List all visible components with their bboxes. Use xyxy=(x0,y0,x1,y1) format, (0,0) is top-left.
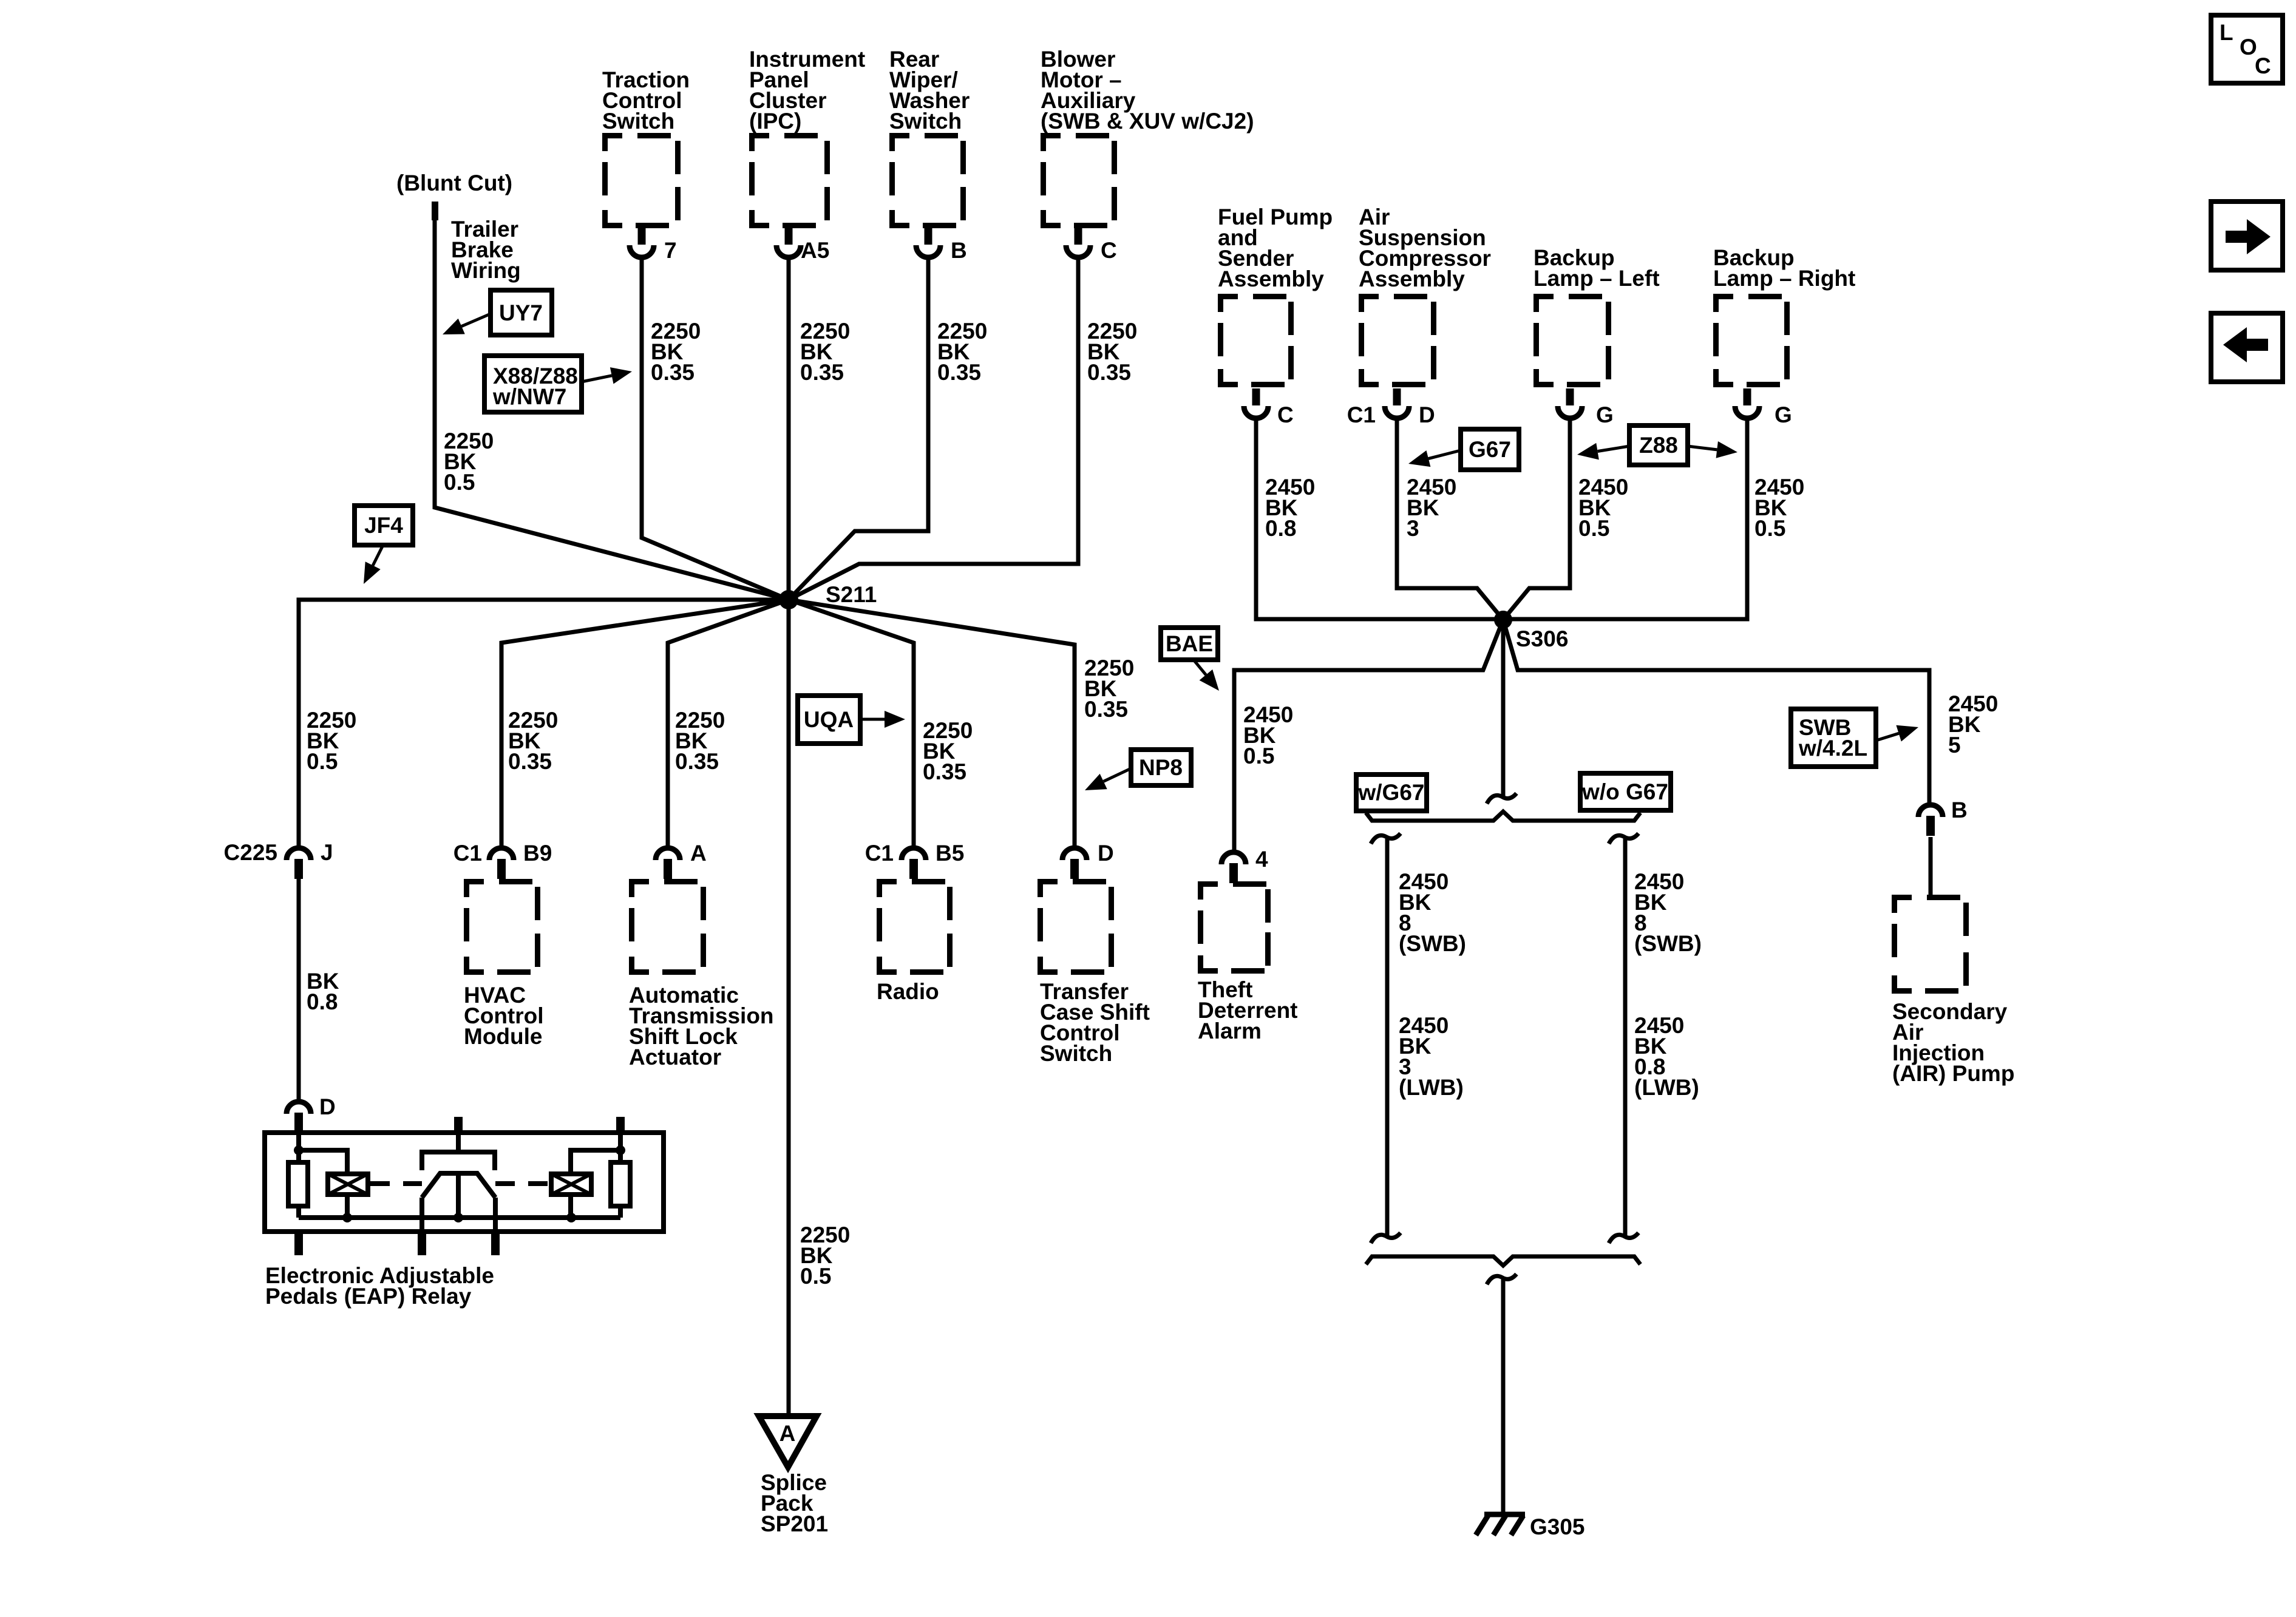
svg-text:BackupLamp – Left: BackupLamp – Left xyxy=(1533,245,1660,291)
relay top pin stubs xyxy=(454,1117,463,1133)
Traction Control Switch box xyxy=(602,133,681,228)
option box w/o G67 xyxy=(1580,773,1671,810)
upper options brace xyxy=(1366,812,1640,821)
svg-text:TransferCase ShiftControlSwitc: TransferCase ShiftControlSwitch xyxy=(1040,979,1150,1066)
splice S306 xyxy=(1494,611,1512,629)
svg-text:C: C xyxy=(2255,53,2271,78)
wire S211 to Automatic Transmission Shift Lock Actuator xyxy=(668,600,789,848)
wire break below lower brace xyxy=(1487,1274,1517,1284)
connector pin 7 (Traction Control Switch) xyxy=(630,228,654,257)
svg-text:2450BK0.5: 2450BK0.5 xyxy=(1578,475,1628,541)
Backup Lamp Right box xyxy=(1713,294,1790,387)
connector C1 B9 (HVAC Control Module) xyxy=(489,848,514,879)
svg-text:S306: S306 xyxy=(1516,626,1568,651)
svg-text:2450BK0.8(LWB): 2450BK0.8(LWB) xyxy=(1634,1013,1699,1100)
svg-text:2250BK0.5: 2250BK0.5 xyxy=(444,429,494,495)
wire brace to ground G305 xyxy=(1501,1280,1506,1514)
svg-text:2450BK8(SWB): 2450BK8(SWB) xyxy=(1634,869,1702,956)
wire C225 to EAP relay connector D xyxy=(297,879,301,1102)
wire S211 to Radio xyxy=(789,600,914,848)
svg-text:TheftDeterrentAlarm: TheftDeterrentAlarm xyxy=(1198,977,1298,1043)
svg-text:2250BK0.35: 2250BK0.35 xyxy=(923,718,973,784)
wire S211 to Transfer Case Shift Control Switch xyxy=(789,600,1075,848)
option box G67 xyxy=(1461,429,1519,470)
option box UQA xyxy=(798,696,860,744)
resistor left xyxy=(288,1162,308,1206)
wire B connector to AIR pump box xyxy=(1929,837,1933,895)
arrow Z88 to backup lamp right wire xyxy=(1688,446,1717,450)
svg-text:(Blunt Cut): (Blunt Cut) xyxy=(396,171,512,195)
svg-text:AutomaticTransmissionShift Loc: AutomaticTransmissionShift LockActuator xyxy=(629,983,774,1070)
arrow SWB to AIR pump wire xyxy=(1876,733,1899,741)
svg-text:Electronic AdjustablePedals (E: Electronic AdjustablePedals (EAP) Relay xyxy=(265,1263,494,1309)
wire Air Suspension Compressor to S306 xyxy=(1397,418,1503,620)
svg-text:D: D xyxy=(1098,841,1114,866)
arrow UY7 to trailer brake wire xyxy=(461,314,491,327)
svg-text:AirSuspensionCompressorAssembl: AirSuspensionCompressorAssembly xyxy=(1359,205,1491,291)
Backup Lamp Left box xyxy=(1533,294,1611,387)
svg-text:TrailerBrakeWiring: TrailerBrakeWiring xyxy=(451,217,521,283)
connector pin D (EAP relay) xyxy=(287,1102,311,1133)
svg-text:NP8: NP8 xyxy=(1139,755,1183,780)
svg-text:BK0.8: BK0.8 xyxy=(307,969,339,1014)
svg-text:L: L xyxy=(2220,20,2233,45)
Radio box xyxy=(877,879,953,975)
svg-text:SplicePackSP201: SplicePackSP201 xyxy=(761,1470,828,1536)
svg-text:4: 4 xyxy=(1255,847,1268,872)
wire Traction Control Switch to S211 xyxy=(642,257,789,600)
svg-text:C225: C225 xyxy=(224,840,277,865)
wire break top of w/o G67 branch xyxy=(1609,833,1639,844)
Theft Deterrent Alarm box xyxy=(1198,881,1271,974)
connector pin B (Rear Wiper/Washer Switch) xyxy=(916,228,940,257)
wire Fuel Pump to S306 xyxy=(1256,418,1503,619)
svg-text:2250BK0.35: 2250BK0.35 xyxy=(508,708,558,774)
option box NP8 xyxy=(1131,750,1191,785)
Secondary Air Injection (AIR) Pump box xyxy=(1892,895,1969,994)
svg-text:2450BK3: 2450BK3 xyxy=(1407,475,1456,541)
wire IPC through S211 down to Splice Pack SP201 xyxy=(787,257,791,1417)
ground G305 xyxy=(1484,1512,1525,1517)
Transfer Case Shift Control Switch box xyxy=(1038,879,1114,975)
svg-text:C1: C1 xyxy=(453,841,482,866)
svg-text:2450BK8(SWB): 2450BK8(SWB) xyxy=(1399,869,1466,956)
svg-text:7: 7 xyxy=(664,238,677,263)
svg-text:2250BK0.35: 2250BK0.35 xyxy=(1084,656,1134,722)
wire Rear Wiper/Washer Switch to S211 xyxy=(789,257,928,600)
svg-text:D: D xyxy=(319,1094,336,1119)
svg-text:A: A xyxy=(779,1421,796,1446)
arrow G67 to air suspension wire xyxy=(1428,450,1461,459)
Air Suspension Compressor Assembly box xyxy=(1359,294,1436,387)
relay left branch wiring xyxy=(296,1133,301,1218)
arrow Z88 to backup lamp left wire xyxy=(1598,446,1629,452)
svg-text:BackupLamp – Right: BackupLamp – Right xyxy=(1713,245,1855,291)
svg-text:B: B xyxy=(1951,798,1968,822)
wire Blower Motor to S211 xyxy=(789,257,1078,600)
svg-text:2450BK5: 2450BK5 xyxy=(1948,691,1998,758)
lower options brace xyxy=(1366,1256,1640,1266)
option box w/G67 xyxy=(1356,775,1427,811)
svg-text:2250BK0.35: 2250BK0.35 xyxy=(651,319,701,385)
Blower Motor Auxiliary box xyxy=(1041,133,1117,228)
EAP relay box xyxy=(265,1133,664,1232)
Rear Wiper/Washer Switch box xyxy=(889,133,966,228)
svg-text:SWBw/4.2L: SWBw/4.2L xyxy=(1798,715,1867,761)
svg-text:Z88: Z88 xyxy=(1639,433,1678,458)
svg-text:JF4: JF4 xyxy=(364,513,403,538)
svg-text:C: C xyxy=(1277,402,1294,427)
option box BAE xyxy=(1161,628,1218,660)
splice pack SP201 triangle xyxy=(759,1416,817,1467)
svg-text:C1: C1 xyxy=(1347,402,1376,427)
svg-text:BlowerMotor –Auxiliary(SWB & X: BlowerMotor –Auxiliary(SWB & XUV w/CJ2) xyxy=(1041,47,1254,134)
svg-text:C1: C1 xyxy=(865,841,894,866)
coil right (X box) xyxy=(551,1174,591,1195)
svg-text:D: D xyxy=(1419,402,1435,427)
svg-text:B9: B9 xyxy=(523,841,552,866)
svg-text:HVACControlModule: HVACControlModule xyxy=(464,983,544,1049)
svg-text:2250BK0.35: 2250BK0.35 xyxy=(675,708,725,774)
option box Z88 xyxy=(1629,425,1688,465)
connector pin G (Backup Lamp Right) xyxy=(1735,388,1759,418)
wire Backup Lamp Left to S306 xyxy=(1503,418,1570,620)
wire S211 to HVAC Control Module xyxy=(501,600,789,848)
wire Backup Lamp Right to S306 xyxy=(1503,418,1747,619)
svg-text:B: B xyxy=(951,238,967,263)
svg-text:G67: G67 xyxy=(1469,437,1511,462)
relay right branch wiring xyxy=(618,1133,623,1218)
Instrument Panel Cluster box xyxy=(749,133,830,228)
wire break bottom of w/G67 branch xyxy=(1371,1233,1401,1243)
connector pin D (Transfer Case Shift Control Switch) xyxy=(1062,848,1087,879)
svg-text:S211: S211 xyxy=(826,582,877,607)
svg-text:A: A xyxy=(690,841,707,866)
arrow BAE to theft alarm wire xyxy=(1194,660,1206,675)
wire S306 to Secondary Air Injection pump (SWB branch) xyxy=(1503,620,1929,805)
connector pin C (Fuel Pump) xyxy=(1244,388,1268,418)
svg-text:2250BK0.35: 2250BK0.35 xyxy=(937,319,987,385)
connector pin B (Secondary Air Injection Pump) xyxy=(1918,805,1943,836)
svg-text:2450BK0.5: 2450BK0.5 xyxy=(1243,702,1293,768)
svg-text:X88/Z88w/NW7: X88/Z88w/NW7 xyxy=(492,364,578,409)
wire break at S306 lower wire end xyxy=(1487,793,1517,804)
arrow UQA to radio wire xyxy=(860,718,885,721)
relay dashed link xyxy=(370,1181,551,1186)
relay bottom bus xyxy=(299,1215,620,1220)
back arrow box xyxy=(2211,313,2283,382)
svg-text:Radio: Radio xyxy=(877,979,939,1004)
connector pin C (Blower Motor) xyxy=(1066,228,1090,257)
svg-text:2250BK0.5: 2250BK0.5 xyxy=(800,1222,850,1289)
relay center transistor xyxy=(422,1133,495,1170)
svg-text:J: J xyxy=(321,840,333,865)
svg-text:InstrumentPanelCluster(IPC): InstrumentPanelCluster(IPC) xyxy=(749,47,865,134)
wire trailer brake (blunt cut) to S211 xyxy=(435,220,789,600)
svg-text:G: G xyxy=(1775,402,1792,427)
svg-text:2450BK0.5: 2450BK0.5 xyxy=(1754,475,1804,541)
forward arrow box xyxy=(2211,202,2283,270)
wire break bottom of w/o G67 branch xyxy=(1609,1233,1639,1243)
wire S306 down to brace xyxy=(1501,620,1506,796)
svg-text:RearWiper/WasherSwitch: RearWiper/WasherSwitch xyxy=(889,47,970,134)
arrow NP8 to transfer case wire xyxy=(1104,768,1131,781)
svg-text:A5: A5 xyxy=(801,238,829,263)
svg-text:C: C xyxy=(1101,238,1117,263)
svg-text:2450BK3(LWB): 2450BK3(LWB) xyxy=(1399,1013,1464,1100)
splice S211 xyxy=(779,590,798,609)
option box SWB w/4.2L xyxy=(1791,709,1876,767)
svg-text:w/o G67: w/o G67 xyxy=(1581,779,1668,804)
LOC legend box xyxy=(2211,15,2283,83)
svg-text:2250BK0.5: 2250BK0.5 xyxy=(307,708,356,774)
arrow JF4 to wire xyxy=(373,545,383,566)
arrow X88/Z88 to traction wire xyxy=(582,376,612,382)
wire S306 to Theft Deterrent Alarm (BAE branch) xyxy=(1234,620,1503,852)
svg-text:2250BK0.35: 2250BK0.35 xyxy=(1087,319,1137,385)
HVAC Control Module box xyxy=(464,879,540,975)
connector C1 B5 (Radio) xyxy=(902,848,926,879)
svg-text:G: G xyxy=(1596,402,1614,427)
relay bottom pin stubs xyxy=(294,1232,303,1255)
svg-text:SecondaryAirInjection(AIR) Pum: SecondaryAirInjection(AIR) Pump xyxy=(1892,999,2014,1086)
svg-text:2450BK0.8: 2450BK0.8 xyxy=(1265,475,1315,541)
connector C1 pin D (Air Suspension Compressor) xyxy=(1385,388,1409,418)
option box JF4 xyxy=(355,506,413,545)
blunt cut end mark xyxy=(432,202,438,220)
svg-text:B5: B5 xyxy=(936,841,964,866)
svg-text:BAE: BAE xyxy=(1166,631,1213,656)
svg-text:TractionControlSwitch: TractionControlSwitch xyxy=(602,67,690,134)
svg-text:UQA: UQA xyxy=(804,707,854,732)
svg-text:2250BK0.35: 2250BK0.35 xyxy=(800,319,850,385)
wire break top of w/G67 branch xyxy=(1371,833,1401,844)
option box X88/Z88 w/NW7 xyxy=(484,356,582,412)
connector C225 pin J xyxy=(287,848,311,879)
Fuel Pump and Sender Assembly box xyxy=(1218,294,1294,387)
svg-text:Fuel PumpandSenderAssembly: Fuel PumpandSenderAssembly xyxy=(1218,205,1333,291)
wire S211 to C225 connector (JF4 branch) xyxy=(299,600,789,848)
option box UY7 xyxy=(491,290,552,335)
svg-text:UY7: UY7 xyxy=(499,300,543,325)
connector pin G (Backup Lamp Left) xyxy=(1558,388,1582,418)
connector pin A5 (IPC) xyxy=(776,228,801,257)
svg-text:w/G67: w/G67 xyxy=(1358,780,1425,805)
connector pin 4 (Theft Deterrent Alarm) xyxy=(1221,852,1246,883)
svg-text:G305: G305 xyxy=(1530,1514,1585,1539)
connector pin A (ATSLA) xyxy=(656,848,680,879)
resistor right xyxy=(611,1162,630,1206)
Automatic Transmission Shift Lock Actuator box xyxy=(629,879,706,975)
coil left (X box) xyxy=(328,1174,368,1195)
